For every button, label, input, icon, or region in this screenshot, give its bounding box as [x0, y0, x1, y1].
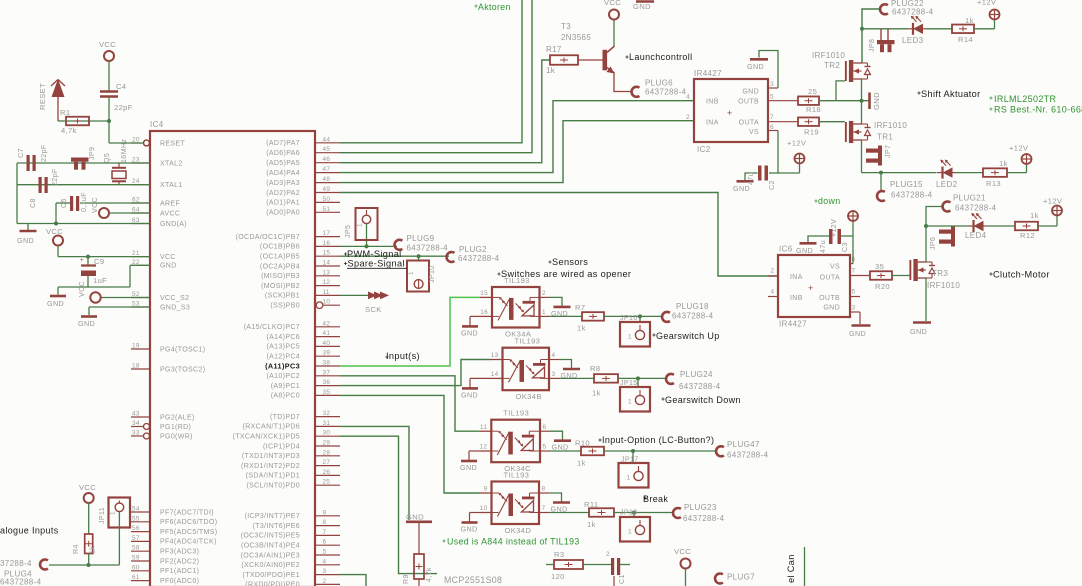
svg-text:R7: R7	[575, 303, 585, 312]
svg-text:4,7k: 4,7k	[61, 126, 77, 135]
svg-text:+12V: +12V	[787, 139, 807, 148]
svg-text:PWM-Signal: PWM-Signal	[347, 249, 402, 259]
svg-text:13: 13	[323, 269, 331, 276]
svg-text:TIL193: TIL193	[504, 471, 530, 480]
svg-text:14: 14	[491, 371, 499, 378]
svg-text:1k: 1k	[1030, 211, 1039, 220]
svg-text:PF5(ADC5/TMS): PF5(ADC5/TMS)	[160, 529, 217, 536]
svg-text:1: 1	[542, 309, 546, 316]
svg-text:PG1(RD): PG1(RD)	[160, 424, 191, 431]
svg-text:PF0(ADC0): PF0(ADC0)	[160, 578, 199, 585]
svg-text:PF4(ADC4/TCK): PF4(ADC4/TCK)	[160, 539, 217, 546]
svg-text:8: 8	[542, 486, 546, 493]
svg-text:25: 25	[808, 87, 817, 96]
svg-text:VS: VS	[830, 264, 840, 271]
svg-text:(TXD0/PDO)PE1: (TXD0/PDO)PE1	[243, 572, 300, 579]
svg-text:(TXCAN/XCK1)PD5: (TXCAN/XCK1)PD5	[233, 434, 300, 441]
svg-text:41: 41	[323, 330, 331, 337]
svg-text:34: 34	[132, 420, 140, 427]
svg-text:10: 10	[323, 299, 331, 306]
svg-text:GND: GND	[460, 463, 477, 472]
svg-text:R17: R17	[546, 45, 562, 54]
svg-text:JP16: JP16	[620, 314, 638, 322]
svg-text:7: 7	[770, 114, 774, 121]
svg-text:(OC1A)PB5: (OC1A)PB5	[260, 254, 300, 261]
svg-text:(AD0)PA0: (AD0)PA0	[266, 210, 300, 217]
svg-text:120: 120	[551, 572, 565, 581]
svg-text:Launchcontroll: Launchcontroll	[629, 52, 692, 62]
svg-text:+: +	[727, 108, 733, 118]
svg-text:alogue Inputs: alogue Inputs	[0, 526, 59, 536]
svg-text:R19: R19	[804, 128, 819, 137]
svg-text:4: 4	[771, 289, 775, 296]
svg-text:VCC: VCC	[79, 483, 96, 492]
svg-text:GND: GND	[406, 513, 424, 522]
svg-text:19: 19	[132, 343, 140, 350]
svg-text:46: 46	[323, 156, 331, 163]
svg-text:37: 37	[323, 369, 331, 376]
svg-text:59: 59	[132, 555, 140, 562]
svg-text:44: 44	[323, 136, 331, 143]
svg-text:6437288-4: 6437288-4	[672, 312, 714, 321]
svg-text:PLUG24: PLUG24	[680, 370, 713, 379]
svg-text:JP10: JP10	[428, 265, 436, 283]
svg-text:47u: 47u	[819, 240, 827, 253]
svg-text:51: 51	[323, 206, 331, 213]
svg-text:6437288-4: 6437288-4	[0, 578, 42, 586]
svg-text:17: 17	[323, 230, 331, 237]
svg-text:PLUG21: PLUG21	[953, 194, 986, 203]
svg-text:22pF: 22pF	[51, 168, 59, 186]
svg-text:R10: R10	[575, 439, 590, 448]
svg-text:VCC: VCC	[99, 40, 116, 49]
svg-text:28: 28	[323, 449, 331, 456]
svg-text:Gearswitch Down: Gearswitch Down	[665, 395, 741, 405]
svg-text:(OC3B/INT4)PE4: (OC3B/INT4)PE4	[241, 543, 300, 550]
svg-text:6437288-4: 6437288-4	[683, 514, 725, 523]
svg-text:32: 32	[323, 410, 331, 417]
svg-text:6437288-4: 6437288-4	[407, 244, 449, 253]
svg-text:GND: GND	[796, 246, 813, 255]
svg-text:OK34D: OK34D	[505, 526, 532, 535]
svg-text:AREF: AREF	[160, 200, 180, 207]
svg-text:(TXD1/INT3)PD3: (TXD1/INT3)PD3	[242, 453, 300, 460]
svg-text:1: 1	[408, 271, 415, 275]
svg-text:(OCDA/OC1C)PB7: (OCDA/OC1C)PB7	[236, 234, 300, 241]
svg-text:61: 61	[132, 574, 140, 581]
svg-text:+: +	[80, 258, 84, 264]
svg-text:6: 6	[323, 539, 327, 546]
svg-text:40: 40	[323, 340, 331, 347]
svg-text:(TD)PD7: (TD)PD7	[270, 414, 300, 421]
svg-text:Clutch-Motor: Clutch-Motor	[993, 270, 1050, 280]
svg-text:down: down	[818, 196, 840, 206]
svg-text:JP8: JP8	[868, 39, 876, 52]
svg-text:(RXD0/PDI)PE0: (RXD0/PDI)PE0	[245, 582, 300, 586]
svg-text:1k: 1k	[592, 389, 601, 398]
svg-text:36: 36	[323, 379, 331, 386]
svg-text:35: 35	[323, 389, 331, 396]
svg-text:GND: GND	[160, 263, 177, 270]
svg-text:56: 56	[132, 525, 140, 532]
svg-text:GND: GND	[742, 89, 759, 96]
svg-text:2: 2	[771, 268, 775, 275]
svg-text:1: 1	[110, 511, 117, 515]
svg-text:33: 33	[132, 430, 140, 437]
svg-text:C7: C7	[17, 148, 25, 158]
svg-text:9: 9	[323, 509, 327, 516]
svg-text:48: 48	[323, 176, 331, 183]
svg-text:25: 25	[323, 479, 331, 486]
svg-text:6437288-4: 6437288-4	[679, 382, 721, 391]
svg-text:PG2(ALE): PG2(ALE)	[160, 414, 195, 421]
svg-text:6437288-4: 6437288-4	[645, 88, 687, 97]
svg-text:Spare-Signal: Spare-Signal	[348, 259, 405, 269]
svg-text:13: 13	[491, 352, 499, 359]
svg-text:3: 3	[852, 305, 856, 312]
svg-text:Break: Break	[643, 494, 668, 504]
svg-text:PLUG47: PLUG47	[727, 440, 760, 449]
svg-text:R11: R11	[584, 500, 598, 509]
svg-text:JP18: JP18	[620, 509, 638, 517]
svg-text:INA: INA	[706, 120, 719, 127]
svg-text:AVCC: AVCC	[160, 210, 180, 217]
svg-text:29: 29	[323, 440, 331, 447]
svg-text:(OC2A)PB4: (OC2A)PB4	[260, 263, 300, 270]
svg-text:R3: R3	[554, 550, 564, 559]
svg-text:PG3(TOSC2): PG3(TOSC2)	[160, 366, 205, 373]
svg-text:VCC: VCC	[46, 227, 63, 236]
svg-text:VCC_S2: VCC_S2	[160, 295, 189, 302]
svg-text:37288-4: 37288-4	[0, 559, 32, 568]
svg-text:PLUG9: PLUG9	[407, 234, 435, 243]
svg-text:(A9)PC1: (A9)PC1	[271, 383, 300, 390]
svg-text:(OC3C/INT5)PE5: (OC3C/INT5)PE5	[241, 533, 300, 540]
svg-text:49: 49	[323, 186, 331, 193]
svg-text:57: 57	[132, 535, 140, 542]
svg-text:42: 42	[323, 320, 331, 327]
svg-text:GND: GND	[47, 299, 64, 308]
svg-text:PLUG6: PLUG6	[645, 79, 673, 88]
svg-text:6: 6	[543, 424, 547, 431]
svg-text:PF7(ADC7/TDI): PF7(ADC7/TDI)	[160, 509, 214, 516]
svg-text:R8: R8	[590, 364, 600, 373]
svg-text:(OC1B)PB6: (OC1B)PB6	[260, 244, 300, 251]
svg-text:T3: T3	[561, 22, 571, 31]
svg-text:4,7k: 4,7k	[425, 567, 433, 582]
svg-text:3: 3	[770, 81, 774, 88]
svg-text:26: 26	[323, 469, 331, 476]
svg-text:RESET: RESET	[38, 83, 47, 110]
svg-text:5: 5	[323, 549, 327, 556]
svg-text:JP15: JP15	[620, 379, 638, 387]
svg-text:JP11: JP11	[98, 507, 106, 524]
svg-text:14: 14	[323, 260, 331, 267]
svg-text:8: 8	[323, 519, 327, 526]
svg-text:el Can: el Can	[786, 554, 796, 583]
svg-text:1k: 1k	[587, 520, 596, 529]
svg-text:TIL193: TIL193	[504, 276, 530, 285]
svg-text:VS: VS	[749, 129, 759, 136]
svg-text:PF6(ADC6/TDO): PF6(ADC6/TDO)	[160, 519, 217, 526]
svg-text:(A15/CLKO)PC7: (A15/CLKO)PC7	[244, 324, 300, 331]
svg-text:Aktoren: Aktoren	[478, 2, 511, 12]
svg-text:JP6: JP6	[929, 237, 937, 250]
svg-text:(ICP3/INT7)PE7: (ICP3/INT7)PE7	[245, 513, 300, 520]
svg-text:(XCK0/AIN0)PE2: (XCK0/AIN0)PE2	[241, 562, 300, 569]
svg-text:7: 7	[852, 268, 856, 275]
svg-text:0,1uF: 0,1uF	[80, 192, 88, 212]
svg-text:LED2: LED2	[936, 180, 958, 189]
svg-text:22pF: 22pF	[114, 103, 133, 112]
svg-text:(OC3A/AIN1)PE3: (OC3A/AIN1)PE3	[241, 552, 300, 559]
svg-text:GND(A): GND(A)	[160, 221, 187, 228]
svg-text:IRLML2502TR: IRLML2502TR	[994, 94, 1057, 104]
svg-text:C8: C8	[29, 198, 37, 208]
svg-text:VCC: VCC	[78, 281, 86, 297]
svg-text:55: 55	[132, 515, 140, 522]
svg-text:(AD2)PA2: (AD2)PA2	[266, 190, 300, 197]
svg-text:54: 54	[132, 506, 140, 513]
svg-text:58: 58	[132, 545, 140, 552]
svg-text:IR4427: IR4427	[694, 69, 722, 78]
svg-text:(T3/INT6)PE6: (T3/INT6)PE6	[253, 523, 300, 530]
svg-text:LED4: LED4	[965, 231, 987, 240]
svg-text:5: 5	[852, 289, 856, 296]
svg-text:50: 50	[323, 196, 331, 203]
svg-text:RESET: RESET	[160, 140, 185, 147]
svg-text:1k: 1k	[577, 459, 586, 468]
svg-text:GND: GND	[461, 390, 478, 399]
svg-text:15: 15	[480, 290, 488, 297]
svg-text:22pF: 22pF	[40, 144, 48, 162]
svg-text:3: 3	[323, 568, 327, 575]
svg-text:Used is A844 instead of TIL19: Used is A844 instead of TIL193	[447, 537, 580, 547]
svg-text:5: 5	[770, 94, 774, 101]
svg-text:27: 27	[323, 459, 331, 466]
svg-text:(A11)PC3: (A11)PC3	[265, 362, 300, 371]
svg-text:IC2: IC2	[697, 145, 711, 154]
svg-text:1: 1	[357, 223, 364, 227]
svg-text:JP9: JP9	[88, 147, 96, 160]
svg-text:JP17: JP17	[621, 456, 639, 464]
svg-text:Q5: Q5	[103, 153, 111, 163]
svg-text:(AD1)PA1: (AD1)PA1	[266, 200, 300, 207]
svg-text:R18: R18	[806, 105, 821, 114]
svg-text:OK34B: OK34B	[516, 392, 542, 401]
svg-text:6437288-4: 6437288-4	[727, 451, 769, 460]
svg-text:(AD3)PA3: (AD3)PA3	[266, 180, 300, 187]
svg-text:C3: C3	[841, 242, 849, 252]
svg-text:R12: R12	[1020, 231, 1035, 240]
svg-text:18: 18	[132, 363, 140, 370]
svg-text:JP7: JP7	[884, 145, 892, 158]
svg-text:LED3: LED3	[902, 36, 924, 45]
svg-text:R14: R14	[958, 35, 973, 44]
svg-text:GND: GND	[910, 327, 927, 336]
svg-text:31: 31	[323, 420, 331, 427]
svg-text:GND: GND	[823, 305, 840, 312]
svg-text:R9: R9	[402, 574, 410, 584]
svg-text:R4: R4	[72, 544, 80, 554]
svg-text:Gearswitch Up: Gearswitch Up	[656, 331, 720, 341]
svg-text:16: 16	[480, 309, 488, 316]
svg-text:VCC: VCC	[674, 547, 691, 556]
svg-text:GND: GND	[78, 319, 95, 328]
svg-text:(MISO)PB3: (MISO)PB3	[261, 273, 300, 280]
svg-text:JP5: JP5	[344, 225, 352, 238]
svg-text:VCC: VCC	[604, 0, 621, 7]
svg-text:TR1: TR1	[877, 133, 893, 142]
svg-text:(A10)PC2: (A10)PC2	[266, 373, 300, 380]
svg-text:(AD7)PA7: (AD7)PA7	[266, 140, 300, 147]
svg-text:(A13)PC5: (A13)PC5	[266, 344, 300, 351]
svg-text:TR2: TR2	[824, 61, 840, 70]
svg-text:IC4: IC4	[150, 120, 164, 129]
svg-text:15: 15	[323, 250, 331, 257]
svg-text:30: 30	[323, 430, 331, 437]
svg-text:TIL193: TIL193	[503, 409, 529, 418]
svg-text:IRF1010: IRF1010	[812, 51, 845, 60]
svg-text:IRF1010: IRF1010	[874, 121, 907, 130]
svg-text:PF3(ADC3): PF3(ADC3)	[160, 549, 199, 556]
svg-text:Shift Aktuator: Shift Aktuator	[921, 89, 981, 99]
svg-text:16MHz: 16MHz	[120, 139, 128, 163]
svg-text:60: 60	[132, 564, 140, 571]
svg-text:(RXCAN/T1)PD6: (RXCAN/T1)PD6	[243, 424, 300, 431]
svg-text:1: 1	[628, 529, 632, 536]
svg-text:2: 2	[323, 578, 327, 585]
svg-text:OUTB: OUTB	[738, 99, 759, 106]
svg-text:1uF: 1uF	[93, 276, 107, 285]
svg-text:7: 7	[323, 529, 327, 536]
svg-text:GND: GND	[849, 329, 866, 338]
svg-text:MCP2551S08: MCP2551S08	[444, 575, 502, 585]
svg-text:PLUG18: PLUG18	[676, 302, 709, 311]
svg-text:12: 12	[479, 444, 487, 451]
svg-text:PF2(ADC2): PF2(ADC2)	[160, 558, 199, 565]
svg-text:GND: GND	[872, 92, 881, 110]
svg-text:1k: 1k	[965, 16, 974, 25]
svg-text:C2: C2	[768, 180, 776, 190]
svg-text:(AD4)PA4: (AD4)PA4	[266, 170, 300, 177]
svg-text:XTAL1: XTAL1	[160, 182, 183, 189]
svg-text:1: 1	[627, 475, 631, 482]
svg-text:(SS)PB0: (SS)PB0	[270, 303, 300, 310]
svg-text:10: 10	[480, 505, 488, 512]
svg-text:OUTA: OUTA	[739, 120, 759, 127]
svg-text:C9: C9	[94, 257, 104, 266]
svg-text:PF1(ADC1): PF1(ADC1)	[160, 568, 199, 575]
svg-text:(AD6)PA6: (AD6)PA6	[266, 150, 300, 157]
svg-text:6437288-4: 6437288-4	[955, 204, 997, 213]
svg-text:4: 4	[686, 94, 690, 101]
svg-text:(A14)PC6: (A14)PC6	[266, 334, 300, 341]
svg-text:+12V: +12V	[977, 0, 997, 7]
svg-text:Input-Option (LC-Button?): Input-Option (LC-Button?)	[602, 435, 714, 445]
svg-text:1k: 1k	[999, 159, 1008, 168]
svg-text:6437288-4: 6437288-4	[892, 8, 934, 17]
svg-text:GND: GND	[461, 525, 478, 534]
svg-text:(RXD1/INT2)PD2: (RXD1/INT2)PD2	[241, 463, 300, 470]
svg-text:INA: INA	[790, 274, 803, 281]
svg-text:1k: 1k	[577, 324, 586, 333]
svg-text:(SCL/INT0)PD0: (SCL/INT0)PD0	[246, 483, 300, 490]
svg-text:OUTA: OUTA	[820, 275, 840, 282]
svg-text:PLUG2: PLUG2	[459, 245, 487, 254]
svg-text:1: 1	[628, 334, 632, 341]
svg-text:SCK: SCK	[365, 305, 382, 314]
svg-text:Input(s): Input(s)	[386, 351, 420, 361]
svg-text:IR4427: IR4427	[779, 320, 807, 329]
svg-text:(ICP1)PD4: (ICP1)PD4	[263, 443, 300, 450]
svg-text:11: 11	[323, 289, 330, 296]
svg-text:38: 38	[323, 360, 331, 367]
svg-text:PG4(TOSC1): PG4(TOSC1)	[160, 346, 205, 353]
svg-text:VCC: VCC	[91, 197, 99, 213]
svg-text:4: 4	[323, 558, 327, 565]
svg-text:35: 35	[875, 262, 884, 271]
svg-text:5: 5	[543, 444, 547, 451]
svg-text:7: 7	[542, 505, 546, 512]
svg-text:GND: GND	[461, 328, 478, 337]
svg-text:TR3: TR3	[932, 269, 948, 278]
svg-text:(A12)PC4: (A12)PC4	[266, 354, 300, 361]
svg-text:2: 2	[686, 114, 690, 121]
svg-text:(AD5)PA5: (AD5)PA5	[266, 160, 300, 167]
svg-text:RS Best.-Nr. 610-668: RS Best.-Nr. 610-668	[994, 105, 1082, 115]
svg-text:C4: C4	[116, 82, 126, 91]
svg-text:39: 39	[323, 350, 331, 357]
svg-text:GND: GND	[633, 2, 651, 11]
svg-text:XTAL2: XTAL2	[160, 160, 183, 167]
svg-text:+: +	[808, 283, 814, 293]
svg-text:9: 9	[484, 486, 488, 493]
svg-text:GND: GND	[747, 62, 764, 71]
svg-text:47u: 47u	[747, 172, 755, 185]
svg-text:43: 43	[132, 411, 140, 418]
svg-text:GND: GND	[17, 236, 34, 245]
svg-text:VCC: VCC	[160, 254, 176, 261]
svg-text:4: 4	[552, 352, 556, 359]
svg-text:(A8)PC0: (A8)PC0	[271, 393, 300, 400]
svg-text:(SCK)PB1: (SCK)PB1	[265, 293, 300, 300]
svg-text:IC6: IC6	[779, 245, 793, 254]
svg-text:Sensors: Sensors	[552, 257, 588, 267]
svg-text:INB: INB	[790, 295, 803, 302]
svg-text:16: 16	[323, 240, 331, 247]
svg-text:(MOSI)PB2: (MOSI)PB2	[261, 283, 300, 290]
svg-text:R20: R20	[875, 282, 890, 291]
svg-text:2: 2	[606, 551, 610, 558]
svg-text:1: 1	[628, 399, 632, 406]
svg-text:PLUG23: PLUG23	[684, 503, 717, 512]
svg-text:PLUG7: PLUG7	[727, 573, 755, 582]
svg-text:11: 11	[480, 424, 487, 431]
svg-text:R1: R1	[60, 108, 70, 117]
svg-text:TIL193: TIL193	[515, 337, 541, 346]
svg-text:IRF1010: IRF1010	[927, 281, 960, 290]
svg-text:1k: 1k	[546, 66, 556, 75]
svg-text:OUTB: OUTB	[819, 295, 840, 302]
svg-text:+12V: +12V	[1009, 144, 1029, 153]
svg-text:PG0(WR): PG0(WR)	[160, 433, 193, 440]
svg-text:47: 47	[323, 166, 331, 173]
svg-text:45: 45	[323, 146, 331, 153]
svg-text:2N3565: 2N3565	[561, 33, 591, 42]
svg-text:PLUG15: PLUG15	[890, 180, 923, 189]
svg-text:6437288-4: 6437288-4	[458, 254, 500, 263]
